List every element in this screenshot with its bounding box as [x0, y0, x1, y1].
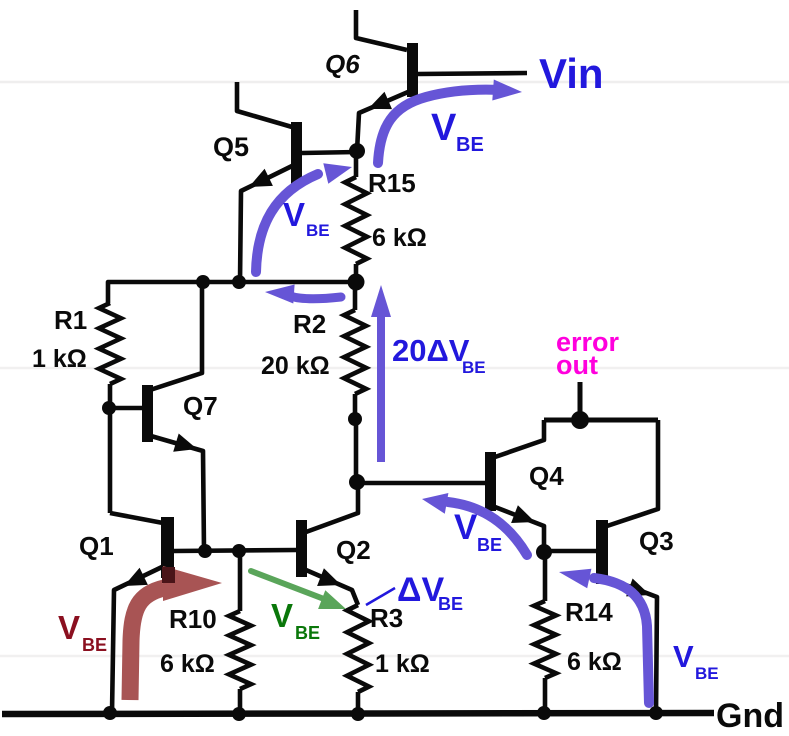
node A: R1 bottom / Q7 base junction	[102, 401, 116, 415]
svg-text:1 kΩ: 1 kΩ	[32, 345, 87, 373]
svg-text:V: V	[431, 107, 457, 149]
svg-text:Q2: Q2	[336, 535, 371, 565]
svg-text:Vin: Vin	[539, 50, 604, 97]
transistor Q3	[544, 549, 597, 554]
annotation arrow: VBE of Q4 (leftward)	[448, 502, 527, 555]
svg-text:out: out	[556, 350, 598, 380]
svg-text:BE: BE	[82, 635, 107, 655]
svg-text:BE: BE	[306, 221, 330, 240]
svg-text:20ΔV: 20ΔV	[392, 333, 470, 368]
svg-text:Q3: Q3	[639, 526, 674, 556]
annotation arrow: current into bus (leftward)	[290, 296, 341, 299]
svg-text:R15: R15	[368, 168, 416, 198]
svg-text:Q5: Q5	[213, 132, 249, 162]
transistor Q7	[109, 406, 142, 411]
svg-text:Q7: Q7	[183, 391, 218, 421]
svg-text:20 kΩ: 20 kΩ	[261, 352, 330, 380]
svg-text:BE: BE	[295, 623, 320, 643]
node: R3 on ground	[351, 707, 365, 721]
node: Q5 base / Q6 emitter / R15 top	[349, 143, 365, 159]
svg-text:6 kΩ: 6 kΩ	[160, 650, 215, 678]
node: Q3 emitter on ground	[649, 706, 663, 720]
annotation arrow: green VBE of Q2	[251, 571, 324, 599]
svg-text:V: V	[271, 597, 293, 634]
svg-text:R1: R1	[54, 305, 87, 335]
resistor R1	[99, 303, 121, 384]
node: Q7 collector on bus	[196, 275, 210, 289]
wire: top horizontal bus y=282	[108, 282, 357, 303]
svg-text:BE: BE	[456, 134, 484, 156]
annotation arrow: VBE of Q5	[256, 174, 318, 272]
error out stub	[578, 382, 583, 420]
resistor R10	[238, 551, 243, 611]
svg-text:Q4: Q4	[529, 461, 564, 491]
svg-text:6 kΩ: 6 kΩ	[372, 224, 427, 252]
node: R10 on ground	[232, 707, 246, 721]
node: R10 top	[232, 544, 246, 558]
svg-text:1 kΩ: 1 kΩ	[375, 650, 430, 678]
svg-text:R10: R10	[169, 604, 217, 634]
node: Q4 emitter / Q3 base / R14 top	[536, 544, 552, 560]
svg-text:V: V	[283, 196, 305, 233]
node: Q2 collector / Q4 base junction	[349, 474, 365, 490]
transistor Q6	[356, 10, 407, 50]
transistor Q2	[306, 482, 358, 532]
node: Q1 emitter on ground	[103, 706, 117, 720]
annotation arrow: 20dVBE up along R2	[377, 310, 385, 462]
svg-text:Gnd: Gnd	[716, 697, 784, 735]
annotation arrow: VBE of Q6 toward Vin	[378, 90, 500, 163]
resistor R14	[543, 552, 548, 601]
transistor Q5	[237, 82, 292, 127]
transistor Q4	[357, 481, 485, 486]
transistor Q1	[110, 513, 163, 523]
annotation arrow: dark red VBE of Q1	[130, 588, 164, 700]
svg-text:BE: BE	[695, 664, 719, 683]
svg-text:R14: R14	[565, 597, 613, 627]
resistor R3	[347, 605, 369, 692]
node: Q7 emitter on base bus	[198, 544, 212, 558]
ground rail Gnd	[2, 713, 714, 714]
wire R2 to Q2/Q4 node	[354, 419, 359, 482]
resistor R2	[353, 282, 358, 310]
svg-text:Q6: Q6	[325, 49, 360, 79]
node: below R2	[348, 412, 362, 426]
svg-text:V: V	[58, 609, 80, 646]
wire R1 bottom to Q1 collector rail	[108, 384, 113, 513]
node: Q5 emitter on bus	[232, 275, 246, 289]
svg-text:Q1: Q1	[79, 531, 114, 561]
scan artifact lines	[0, 81, 789, 84]
svg-text:6 kΩ: 6 kΩ	[567, 648, 622, 676]
svg-text:BE: BE	[477, 535, 502, 555]
svg-text:BE: BE	[462, 358, 486, 377]
node: R15/R2 junction	[348, 274, 365, 291]
svg-text:BE: BE	[438, 594, 463, 614]
dVBE pointer line	[366, 588, 395, 605]
node: R14 on ground	[537, 706, 551, 720]
annotation arrow: VBE of Q3 (up-left)	[594, 578, 649, 703]
wire: error out top link	[544, 418, 658, 423]
svg-text:V: V	[454, 508, 478, 547]
node: error out	[571, 411, 589, 429]
resistor R15	[354, 151, 359, 177]
svg-text:V: V	[673, 639, 694, 674]
svg-text:R2: R2	[293, 309, 326, 339]
